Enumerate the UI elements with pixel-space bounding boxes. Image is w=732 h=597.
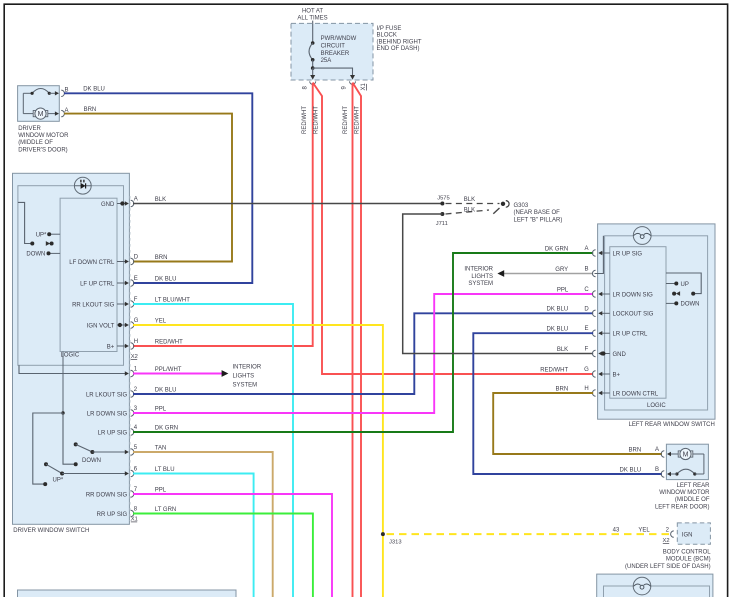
label HOT AT ALL TIMES [297, 8, 327, 21]
svg-text:DOWN: DOWN [26, 252, 45, 258]
left rear switch pin sockets [592, 250, 595, 396]
svg-text:BODY CONTROL: BODY CONTROL [663, 550, 712, 556]
svg-text:A: A [584, 246, 588, 252]
svg-text:LEFT "B" PILLAR): LEFT "B" PILLAR) [514, 217, 563, 223]
logic outputs to pins D-H [117, 259, 129, 348]
svg-text:DRIVER WINDOW SWITCH: DRIVER WINDOW SWITCH [13, 528, 89, 534]
svg-text:RED/WHT: RED/WHT [302, 106, 308, 134]
logic GND pin F with splice dot [598, 351, 610, 355]
svg-text:(NEAR BASE OF: (NEAR BASE OF [514, 210, 561, 216]
svg-text:HOT AT: HOT AT [302, 8, 323, 14]
wire BLK J711 to left rear switch GND pin F [403, 214, 594, 354]
svg-text:DK BLU: DK BLU [83, 87, 105, 93]
svg-text:LOGIC: LOGIC [647, 403, 666, 409]
svg-text:INTERIOR: INTERIOR [233, 364, 262, 370]
wire LT GRN RR UP SIG pin 8 [133, 514, 313, 597]
pin B lamp feed [595, 236, 604, 274]
svg-text:B+: B+ [107, 344, 115, 350]
wire YEL dashed J313 to BCM IGN [387, 533, 672, 535]
svg-text:PPL: PPL [155, 406, 167, 412]
svg-text:(BEHIND RIGHT: (BEHIND RIGHT [377, 39, 422, 45]
wire GRY interior lights to pin B [504, 273, 593, 275]
svg-text:G: G [134, 318, 139, 324]
wire BLK driver GND pin A to J575 [133, 203, 442, 205]
svg-text:LR UP CTRL: LR UP CTRL [613, 332, 649, 338]
junction J313 [381, 532, 402, 546]
I/P fuse block (dashed box) [291, 23, 373, 80]
wire PPL RR DOWN SIG pin 7 [133, 494, 332, 597]
RR DOWN switch blade [74, 442, 129, 466]
svg-text:J711: J711 [436, 221, 448, 227]
arrow to interior lights system [222, 370, 229, 377]
svg-text:X2: X2 [131, 354, 138, 360]
svg-text:RED/WHT: RED/WHT [354, 106, 360, 134]
left rear switch wire name labels [540, 246, 569, 392]
left rear motor pin sockets [661, 451, 664, 477]
svg-text:DK GRN: DK GRN [545, 246, 568, 252]
svg-text:BLK: BLK [557, 347, 568, 353]
svg-text:(MIDDLE OF: (MIDDLE OF [675, 497, 710, 503]
svg-text:LR UP SIG: LR UP SIG [613, 251, 643, 257]
svg-text:G303: G303 [514, 203, 529, 209]
svg-text:PPL: PPL [155, 487, 167, 493]
svg-text:GRY: GRY [555, 267, 568, 273]
svg-text:DK BLU: DK BLU [155, 387, 177, 393]
driver motor pin A socket [61, 110, 64, 116]
svg-text:LEFT REAR WINDOW SWITCH: LEFT REAR WINDOW SWITCH [629, 422, 715, 428]
svg-text:E: E [584, 326, 588, 332]
svg-text:MODULE (BCM): MODULE (BCM) [666, 556, 711, 562]
svg-text:A: A [655, 447, 659, 453]
svg-text:M: M [38, 111, 44, 118]
wire DK BLU LR LKOUT SIG pin 2 to LOCKOUT SIG pin D [133, 313, 593, 394]
svg-text:IGN: IGN [682, 533, 693, 539]
right front window switch (partial) [18, 590, 237, 597]
svg-text:LR DOWN CTRL: LR DOWN CTRL [613, 391, 659, 397]
svg-text:PWR/WNDW: PWR/WNDW [321, 36, 357, 42]
svg-text:RED/WHT: RED/WHT [343, 106, 349, 134]
svg-text:LR DOWN SIG: LR DOWN SIG [613, 292, 654, 298]
svg-text:INTERIOR: INTERIOR [464, 267, 493, 273]
driver switch wire name labels [155, 197, 190, 513]
svg-text:X1: X1 [361, 82, 367, 90]
svg-text:TAN: TAN [155, 445, 167, 451]
svg-text:RED/WHT: RED/WHT [314, 106, 320, 134]
svg-text:UP*: UP* [36, 232, 47, 238]
svg-text:X2: X2 [662, 538, 669, 544]
driver switch pin sockets [131, 200, 134, 516]
wire stub from HOT AT feed [312, 21, 314, 24]
svg-text:BRN: BRN [556, 386, 569, 392]
svg-text:IGN VOLT: IGN VOLT [87, 323, 115, 329]
svg-text:CIRCUIT: CIRCUIT [321, 43, 346, 49]
svg-text:(MIDDLE OF: (MIDDLE OF [18, 140, 53, 146]
label INTERIOR LIGHTS SYSTEM [464, 267, 493, 287]
svg-text:LF UP CTRL: LF UP CTRL [80, 281, 115, 287]
svg-text:M: M [683, 452, 689, 459]
svg-text:C: C [584, 287, 589, 293]
svg-text:I/P FUSE: I/P FUSE [377, 26, 402, 32]
svg-text:BRN: BRN [84, 107, 97, 113]
svg-text:LEFT REAR: LEFT REAR [677, 483, 711, 489]
logic inputs pins A,C,D,E,G,H [598, 251, 610, 395]
label BODY CONTROL MODULE (BCM) [625, 550, 711, 571]
svg-text:B: B [584, 267, 588, 273]
driver window motor [18, 86, 60, 122]
svg-text:BLK: BLK [464, 197, 475, 203]
svg-text:LR LKOUT SIG: LR LKOUT SIG [86, 392, 128, 398]
driver window motor location label [18, 126, 69, 154]
wire RED/WHT breaker 8 to left rear switch B+ pin G [313, 83, 594, 375]
svg-text:LT GRN: LT GRN [155, 507, 176, 513]
svg-text:LIGHTS: LIGHTS [233, 373, 255, 379]
wire DK BLU LR UP CTRL pin E to motor B [473, 333, 662, 474]
wire PPL LR DOWN SIG pin 3 to pin C [133, 294, 593, 413]
LF switch DOWN contact [47, 251, 61, 255]
labels connector X1 signals [86, 392, 128, 518]
svg-text:25A: 25A [321, 58, 332, 64]
svg-text:DK BLU: DK BLU [155, 276, 177, 282]
label INTERIOR LIGHTS SYSTEM [233, 364, 262, 388]
logic feed to LR DOWN SIG junction [61, 352, 64, 415]
labels BLK [464, 197, 475, 213]
wire DK BLU driver motor B to LF UP CTRL pin E [64, 93, 252, 283]
svg-text:BLK: BLK [155, 197, 166, 203]
svg-text:BLOCK: BLOCK [377, 33, 397, 39]
svg-text:YEL: YEL [155, 318, 167, 324]
labels 43 YEL 2 [613, 528, 670, 534]
svg-text:RED/WHT: RED/WHT [540, 367, 568, 373]
svg-text:LOCKOUT SIG: LOCKOUT SIG [613, 312, 654, 318]
left rear switch pin letters [584, 246, 589, 392]
wire to terminal 8 [312, 68, 314, 76]
svg-text:LF DOWN CTRL: LF DOWN CTRL [69, 260, 115, 266]
driver window switch body [13, 173, 130, 524]
svg-text:DRIVER: DRIVER [18, 126, 41, 132]
svg-text:BREAKER: BREAKER [321, 51, 350, 57]
svg-text:D: D [584, 306, 589, 312]
svg-text:43: 43 [613, 528, 620, 534]
labels RED/WHT (rotated) [302, 106, 360, 134]
svg-text:B: B [655, 467, 659, 473]
terminal socket arcs [310, 81, 316, 84]
svg-text:GND: GND [613, 352, 627, 358]
junction in fuse block [311, 66, 315, 70]
right rear window switch (partial) [597, 574, 713, 597]
circuit breaker PWR/WNDW 25A [309, 23, 314, 68]
svg-text:A: A [134, 196, 138, 202]
svg-text:PPL/WHT: PPL/WHT [155, 367, 182, 373]
svg-text:YEL: YEL [638, 528, 650, 534]
LF switch UP contact [47, 232, 60, 236]
logic GND output to pin A [117, 201, 129, 205]
wire RED/WHT breaker 8 to driver switch B+ pin H [133, 83, 313, 346]
labels logic pins [613, 251, 659, 397]
svg-text:E: E [134, 276, 138, 282]
svg-text:WINDOW MOTOR: WINDOW MOTOR [659, 490, 710, 496]
svg-text:UP: UP [681, 282, 689, 288]
svg-text:(UNDER LEFT SIDE OF DASH): (UNDER LEFT SIDE OF DASH) [625, 564, 711, 570]
svg-text:DK GRN: DK GRN [155, 425, 178, 431]
svg-text:END OF DASH): END OF DASH) [377, 46, 420, 52]
wire BLK dashed J575 to G303 [446, 203, 500, 205]
svg-text:WINDOW MOTOR: WINDOW MOTOR [18, 133, 69, 139]
svg-text:F: F [134, 297, 138, 303]
svg-text:D: D [134, 254, 139, 260]
label G303 location [514, 203, 563, 223]
breaker value label PWR/WNDW CIRCUIT BREAKER 25A [321, 36, 357, 64]
svg-text:H: H [134, 339, 138, 345]
wire DK GRN LR UP SIG pin 4 to pin A [133, 253, 593, 432]
svg-text:H: H [584, 386, 588, 392]
wire PPL/WHT pin 1 to interior lights [133, 373, 222, 375]
svg-text:LT BLU/WHT: LT BLU/WHT [155, 297, 190, 303]
wire RED/WHT breaker 9 feed 1 [352, 83, 354, 597]
svg-text:DK BLU: DK BLU [547, 307, 569, 313]
wire to terminal 9 [313, 68, 353, 76]
svg-text:UP*: UP* [53, 478, 64, 484]
wire LT BLU pin 6 [133, 474, 254, 597]
svg-text:LEFT REAR DOOR): LEFT REAR DOOR) [655, 504, 710, 510]
svg-text:BLK: BLK [464, 207, 475, 213]
svg-text:DOWN: DOWN [681, 302, 700, 308]
svg-text:PPL: PPL [557, 287, 569, 293]
illumination feed to pin 1 [19, 365, 128, 373]
svg-text:LT BLU: LT BLU [155, 467, 175, 473]
LR switch wiper and bracket [666, 273, 701, 296]
svg-text:J313: J313 [389, 540, 402, 546]
left rear window switch body [598, 224, 715, 419]
body control module connector (dashed) [677, 523, 710, 544]
wire TAN pin 5 [133, 452, 273, 597]
svg-text:DK BLU: DK BLU [620, 467, 642, 473]
svg-text:F: F [585, 347, 589, 353]
svg-text:X1: X1 [131, 516, 138, 522]
LF switch wiper and bracket [18, 202, 54, 246]
svg-text:LR DOWN SIG: LR DOWN SIG [87, 411, 128, 417]
junction J575 [437, 196, 450, 206]
wiper bracket lower [33, 413, 63, 484]
svg-text:J575: J575 [437, 196, 450, 202]
svg-text:SYSTEM: SYSTEM [468, 281, 493, 287]
wire LT BLU/WHT RR LKOUT SIG pin F [133, 304, 293, 597]
svg-text:GND: GND [101, 202, 115, 208]
svg-text:DOWN: DOWN [82, 458, 101, 464]
ground G303 [501, 201, 509, 208]
wire RED/WHT breaker 9 feed 2 [353, 83, 362, 597]
left rear motor location label [655, 483, 710, 511]
svg-text:RED/WHT: RED/WHT [155, 339, 183, 345]
illumination lamp symbol [633, 227, 651, 245]
wire YEL IGN VOLT pin G to J313 [133, 325, 383, 597]
svg-text:RR LKOUT SIG: RR LKOUT SIG [72, 302, 115, 308]
driver motor pin B socket [61, 90, 64, 96]
svg-text:BRN: BRN [629, 447, 642, 453]
svg-text:RR DOWN SIG: RR DOWN SIG [86, 492, 128, 498]
driver switch pin letters [134, 196, 139, 512]
wire BRN driver motor A to LF DOWN CTRL pin D [64, 114, 232, 262]
wire BRN LR DOWN CTRL pin H to motor A [493, 393, 662, 454]
svg-text:G: G [584, 367, 589, 373]
LR switch feed to DOWN contact [63, 413, 75, 464]
svg-text:B+: B+ [613, 372, 621, 378]
arrow to interior lights system [497, 270, 504, 277]
connector face dashed line X2/X1 [129, 196, 131, 521]
BCM pin socket [671, 531, 674, 537]
svg-text:RR UP SIG: RR UP SIG [97, 512, 128, 518]
RR UP switch blade [43, 462, 129, 486]
svg-text:LIGHTS: LIGHTS [471, 274, 493, 280]
illumination lamp symbol [74, 177, 91, 194]
left rear window motor [666, 444, 708, 479]
labels logic pins [69, 260, 115, 351]
svg-text:SYSTEM: SYSTEM [233, 382, 258, 388]
svg-text:BRN: BRN [155, 255, 168, 261]
wire BLK dashed J711 to G303 [446, 208, 500, 214]
svg-text:DRIVER'S DOOR): DRIVER'S DOOR) [18, 147, 67, 153]
svg-text:LR UP SIG: LR UP SIG [98, 430, 128, 436]
LR switch UP contact [666, 282, 678, 286]
junction J711 [436, 212, 448, 227]
LR switch DOWN contact [666, 301, 678, 305]
svg-text:DK BLU: DK BLU [547, 327, 569, 333]
label I/P FUSE BLOCK location [377, 26, 422, 52]
